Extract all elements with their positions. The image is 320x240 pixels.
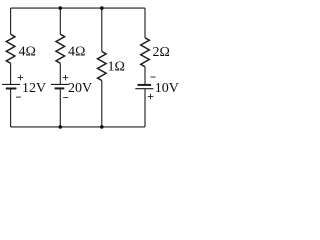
battery V1 plus sign — [18, 75, 24, 81]
node bottom junction branch2 — [59, 125, 63, 129]
battery V3 10V short plate (top) — [138, 84, 152, 86]
svg-text:12V: 12V — [22, 81, 46, 96]
battery V1 12V long plate — [2, 83, 20, 85]
svg-text:4Ω: 4Ω — [68, 45, 85, 60]
battery V2 20V short plate — [55, 87, 65, 89]
battery V1 12V short plate — [6, 88, 17, 90]
battery V2 minus sign — [63, 97, 68, 99]
battery V1 minus sign — [16, 96, 21, 98]
svg-text:1Ω: 1Ω — [108, 60, 125, 75]
wire branch4 bottom — [144, 89, 146, 127]
battery V3 10V long plate (bottom) — [135, 88, 153, 90]
resistor R1 4ohm — [6, 34, 15, 63]
wire branch1 top — [10, 8, 12, 34]
resistor R2 4ohm — [56, 34, 65, 63]
wire branch2 bottom — [59, 88, 61, 127]
battery V3 plus sign — [148, 94, 154, 100]
resistor R4 2ohm — [141, 38, 150, 67]
svg-text:4Ω: 4Ω — [19, 45, 36, 60]
svg-text:10V: 10V — [155, 81, 179, 96]
node top junction branch3 — [100, 6, 104, 10]
wire branch3 top — [101, 8, 103, 51]
wire branch1 bottom — [10, 89, 12, 127]
svg-text:2Ω: 2Ω — [153, 45, 170, 60]
wire top rail — [11, 7, 145, 9]
wire branch1 mid — [10, 63, 12, 84]
battery V2 20V long plate — [51, 83, 69, 85]
wire branch2 top — [59, 8, 61, 34]
battery V3 minus sign — [151, 76, 156, 78]
wire branch2 mid — [59, 63, 61, 84]
svg-text:20V: 20V — [68, 81, 92, 96]
wire branch3 bottom — [101, 81, 103, 127]
node bottom junction branch3 — [100, 125, 104, 129]
wire bottom rail — [11, 126, 145, 128]
node top junction branch2 — [59, 6, 63, 10]
wire branch4 mid — [144, 67, 146, 85]
battery V2 plus sign — [63, 75, 69, 81]
wire branch4 top — [144, 8, 146, 38]
resistor R3 1ohm — [98, 52, 107, 81]
